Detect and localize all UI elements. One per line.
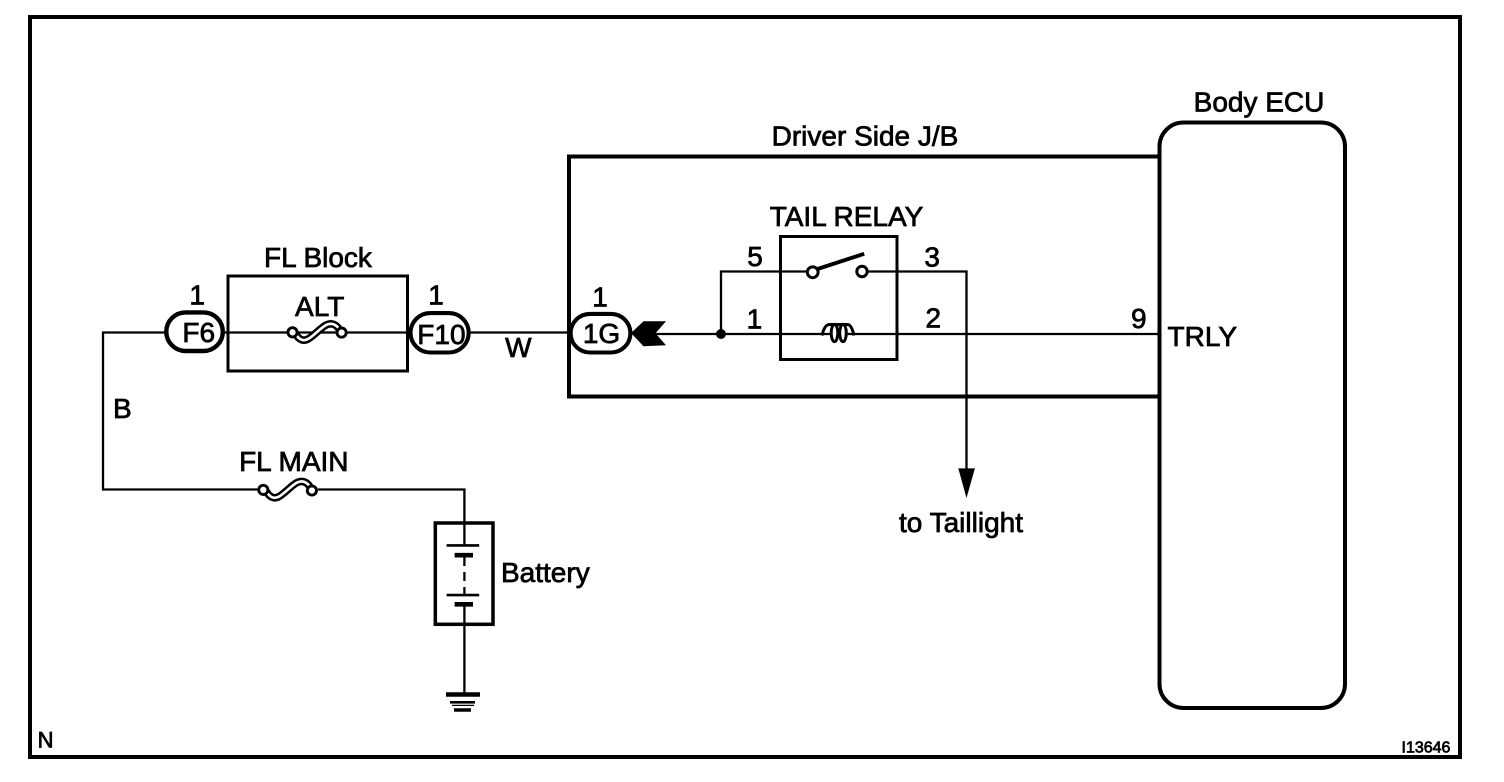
svg-text:3: 3 — [924, 242, 940, 273]
svg-text:FL MAIN: FL MAIN — [239, 446, 348, 477]
svg-text:Battery: Battery — [501, 557, 590, 588]
svg-text:1: 1 — [189, 280, 205, 311]
svg-text:to Taillight: to Taillight — [899, 507, 1023, 538]
svg-text:B: B — [113, 393, 132, 424]
svg-text:N: N — [38, 727, 54, 752]
svg-text:1: 1 — [428, 280, 444, 311]
svg-text:FL Block: FL Block — [264, 242, 373, 273]
svg-text:I13646: I13646 — [1402, 740, 1451, 757]
svg-text:F6: F6 — [182, 317, 215, 348]
svg-text:1G: 1G — [583, 318, 620, 349]
svg-text:TRLY: TRLY — [1168, 321, 1238, 352]
svg-text:Body ECU: Body ECU — [1194, 87, 1325, 118]
svg-text:9: 9 — [1131, 303, 1147, 334]
svg-text:1: 1 — [592, 282, 608, 313]
svg-text:ALT: ALT — [295, 291, 344, 322]
svg-text:Driver Side J/B: Driver Side J/B — [772, 121, 959, 152]
svg-text:2: 2 — [926, 302, 942, 333]
svg-text:1: 1 — [747, 304, 763, 335]
svg-text:F10: F10 — [417, 319, 465, 350]
svg-text:W: W — [505, 332, 532, 363]
svg-text:5: 5 — [747, 241, 763, 272]
svg-text:TAIL RELAY: TAIL RELAY — [770, 201, 924, 232]
